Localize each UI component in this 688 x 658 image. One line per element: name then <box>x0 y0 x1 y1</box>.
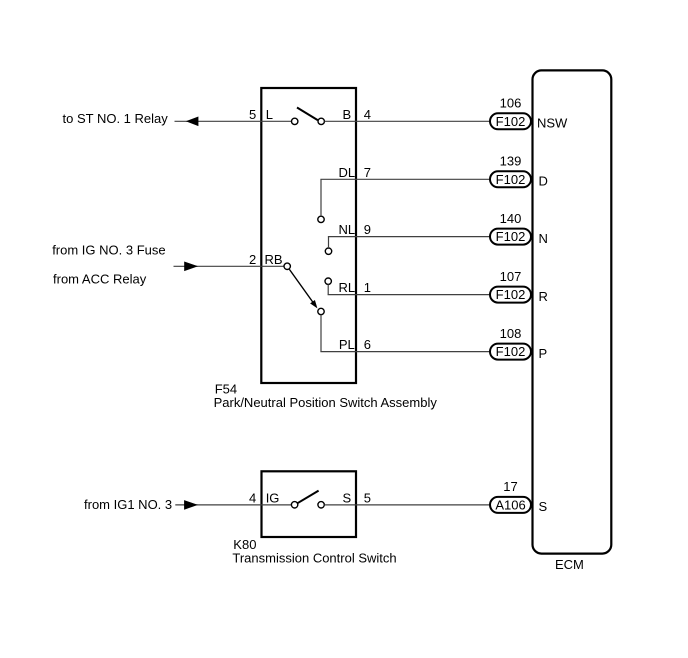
svg-text:to ST NO. 1 Relay: to ST NO. 1 Relay <box>63 111 169 126</box>
svg-text:RB: RB <box>265 252 283 267</box>
svg-text:4: 4 <box>249 490 256 505</box>
svg-text:2: 2 <box>249 252 256 267</box>
wire NL vertical <box>328 237 330 248</box>
contact circle D <box>318 216 324 222</box>
svg-text:F102: F102 <box>496 172 526 187</box>
wire NSW right to ECM <box>325 120 491 122</box>
svg-text:NL: NL <box>338 222 355 237</box>
wire RB left (from IG NO. 3 Fuse / from ACC Relay) <box>174 265 285 267</box>
svg-text:5: 5 <box>249 107 256 122</box>
wire S left (from IG1 NO. 3) <box>175 504 291 506</box>
svg-text:from IG1 NO. 3: from IG1 NO. 3 <box>84 497 172 512</box>
ECM box <box>533 70 612 553</box>
svg-text:139: 139 <box>500 154 522 169</box>
arrow to ST NO. 1 Relay <box>186 117 199 127</box>
svg-text:RL: RL <box>338 280 355 295</box>
connector F102 (NSW) <box>490 113 531 129</box>
svg-text:P: P <box>539 346 548 361</box>
svg-text:1: 1 <box>364 280 371 295</box>
svg-text:R: R <box>539 289 548 304</box>
svg-text:F102: F102 <box>496 229 526 244</box>
wire NSW left (to ST NO. 1 Relay) <box>175 120 292 122</box>
contact circle R <box>325 278 331 284</box>
connector F102 (P) <box>490 344 531 360</box>
svg-text:NSW: NSW <box>537 116 568 131</box>
switch box F54 Park/Neutral Position Switch Assembly <box>261 88 356 383</box>
svg-text:4: 4 <box>364 107 371 122</box>
svg-text:PL: PL <box>339 337 355 352</box>
wire PL vertical <box>320 315 322 352</box>
svg-text:F102: F102 <box>496 114 526 129</box>
svg-text:DL: DL <box>338 165 355 180</box>
svg-text:9: 9 <box>364 222 371 237</box>
switch lever (L-B) <box>297 108 318 121</box>
connector F102 (R) <box>490 287 531 303</box>
wire RL horizontal <box>328 294 490 296</box>
svg-text:106: 106 <box>500 96 522 111</box>
svg-text:from IG NO. 3 Fuse: from IG NO. 3 Fuse <box>52 243 165 258</box>
svg-text:5: 5 <box>364 490 371 505</box>
contact circle P <box>318 308 324 314</box>
wire S right to ECM <box>324 504 490 506</box>
switch contact circle S <box>318 502 324 508</box>
switch lever (IG-S) <box>297 491 318 504</box>
connector F102 (N) <box>490 229 531 245</box>
svg-text:7: 7 <box>364 165 371 180</box>
switch contact circle RB <box>284 263 290 269</box>
svg-text:F102: F102 <box>496 287 526 302</box>
wire DL vertical <box>320 179 322 216</box>
svg-text:6: 6 <box>364 337 371 352</box>
svg-text:F54: F54 <box>215 381 237 396</box>
svg-text:108: 108 <box>500 326 522 341</box>
arrow from IG1 NO. 3 <box>184 500 198 510</box>
wire NL horizontal <box>328 236 490 238</box>
selector lever arrow (RB) <box>289 269 313 302</box>
contact circle N <box>325 248 331 254</box>
svg-text:S: S <box>539 499 548 514</box>
arrow from IG NO. 3 Fuse <box>184 262 198 272</box>
svg-text:B: B <box>342 107 351 122</box>
svg-text:140: 140 <box>500 211 522 226</box>
svg-text:D: D <box>539 174 548 189</box>
switch contact circle B <box>318 118 324 124</box>
svg-text:N: N <box>539 231 548 246</box>
svg-text:F102: F102 <box>496 344 526 359</box>
switch contact circle IG <box>291 502 297 508</box>
wire DL horizontal <box>320 178 490 180</box>
wire PL horizontal <box>320 351 490 353</box>
wire RL vertical <box>327 284 329 294</box>
connector A106 (S) <box>490 497 531 513</box>
svg-text:Transmission Control Switch: Transmission Control Switch <box>232 550 396 565</box>
switch box K80 Transmission Control Switch <box>262 471 357 537</box>
svg-text:A106: A106 <box>495 497 525 512</box>
svg-text:from ACC Relay: from ACC Relay <box>53 272 147 287</box>
svg-text:S: S <box>342 490 351 505</box>
svg-text:ECM: ECM <box>555 557 584 572</box>
svg-text:IG: IG <box>266 490 280 505</box>
svg-text:107: 107 <box>500 269 522 284</box>
connector F102 (D) <box>490 171 531 187</box>
switch contact circle L <box>292 118 298 124</box>
svg-text:L: L <box>266 107 273 122</box>
svg-text:17: 17 <box>503 479 517 494</box>
svg-text:Park/Neutral Position Switch A: Park/Neutral Position Switch Assembly <box>214 395 438 410</box>
